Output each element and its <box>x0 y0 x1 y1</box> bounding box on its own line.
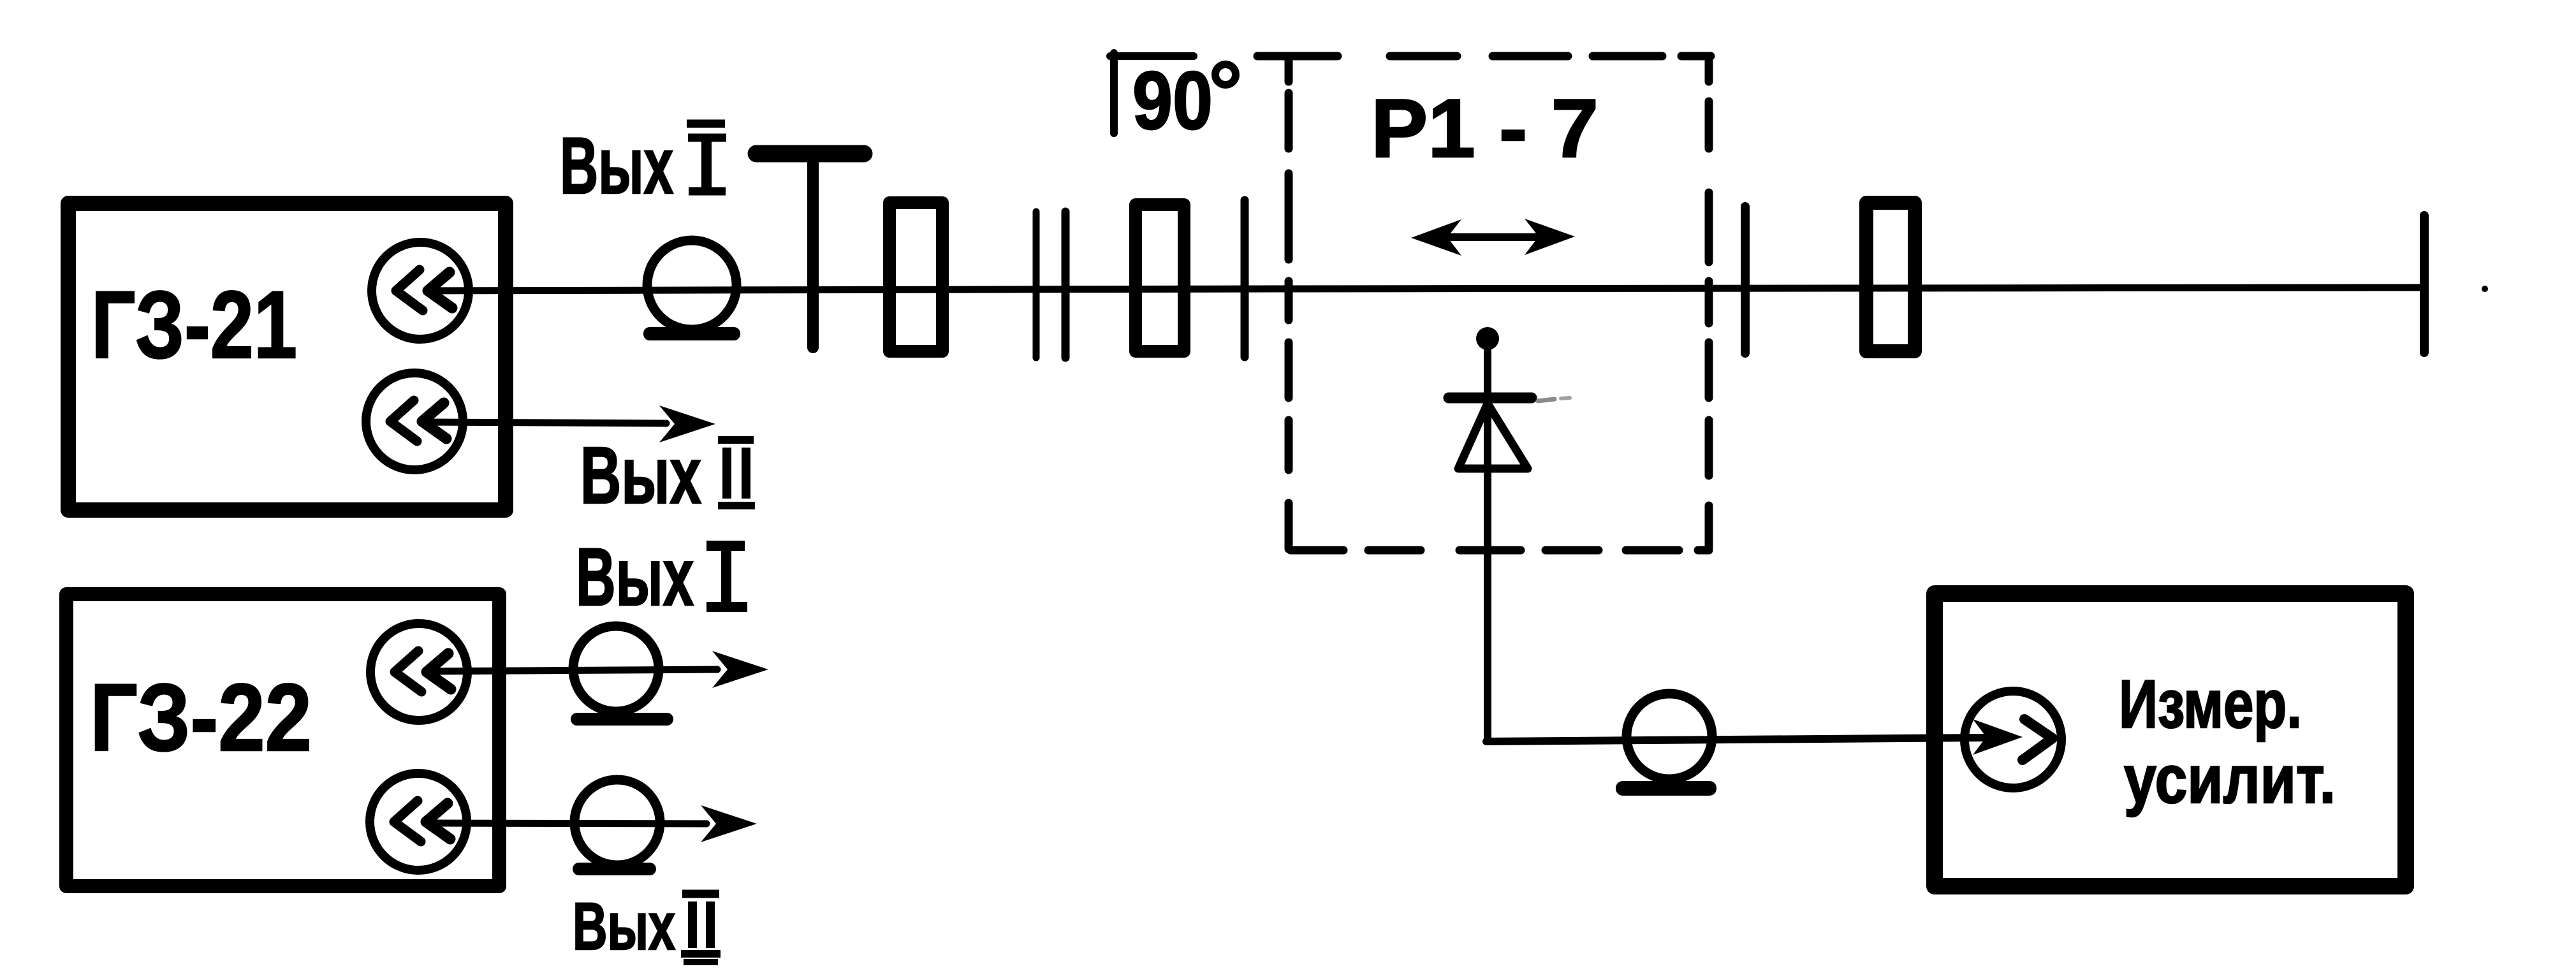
svg-text:Вых: Вых <box>576 532 694 623</box>
svg-text:90: 90 <box>1132 55 1213 147</box>
svg-text:Измер.: Измер. <box>2119 666 2302 742</box>
svg-text:усилит.: усилит. <box>2124 741 2336 817</box>
svg-text:ГЗ-21: ГЗ-21 <box>91 271 297 378</box>
svg-text:Вых: Вых <box>580 430 701 520</box>
svg-text:ГЗ-22: ГЗ-22 <box>90 664 312 771</box>
svg-text:Вых: Вых <box>573 889 675 964</box>
svg-text:Р1 - 7: Р1 - 7 <box>1371 82 1599 175</box>
svg-text:Вых: Вых <box>560 122 673 210</box>
